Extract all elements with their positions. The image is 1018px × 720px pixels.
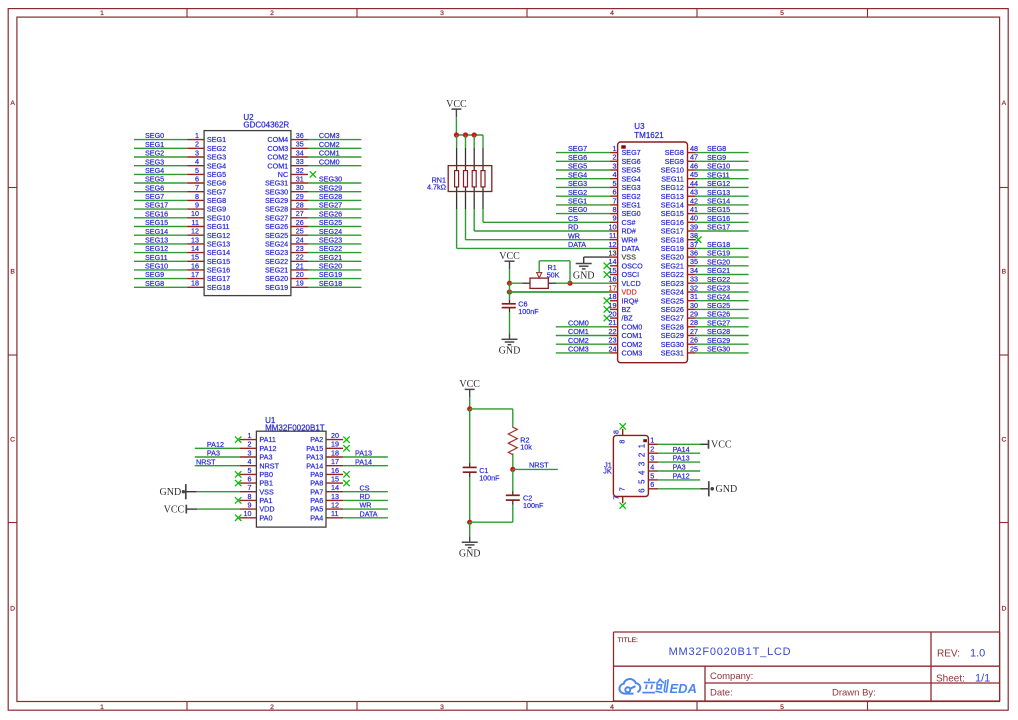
svg-text:15: 15: [609, 266, 617, 275]
svg-text:CS: CS: [568, 214, 578, 223]
svg-text:SEG18: SEG18: [707, 240, 730, 249]
svg-text:SEG2: SEG2: [568, 188, 587, 197]
svg-text:PA6: PA6: [310, 496, 323, 505]
svg-text:23: 23: [609, 336, 617, 345]
svg-text:13: 13: [191, 235, 199, 244]
svg-text:VDD: VDD: [259, 505, 274, 514]
svg-text:COM2: COM2: [568, 336, 589, 345]
svg-text:SEG17: SEG17: [207, 274, 230, 283]
svg-text:7: 7: [195, 183, 199, 192]
svg-text:VCC: VCC: [446, 99, 467, 110]
svg-text:2: 2: [195, 140, 199, 149]
svg-text:SEG17: SEG17: [145, 201, 168, 210]
svg-text:SEG4: SEG4: [622, 174, 641, 183]
svg-text:SEG14: SEG14: [707, 197, 730, 206]
svg-text:SEG0: SEG0: [145, 131, 164, 140]
svg-text:29: 29: [690, 310, 698, 319]
svg-text:COM1: COM1: [568, 327, 589, 336]
svg-text:6: 6: [613, 188, 617, 197]
svg-text:SEG15: SEG15: [661, 209, 684, 218]
svg-text:44: 44: [690, 179, 698, 188]
svg-text:13: 13: [331, 492, 339, 501]
svg-text:SEG8: SEG8: [707, 144, 726, 153]
svg-text:SEG22: SEG22: [661, 270, 684, 279]
svg-text:SEG11: SEG11: [207, 222, 230, 231]
svg-text:SEG31: SEG31: [265, 179, 288, 188]
svg-text:3: 3: [613, 161, 617, 170]
svg-text:OSCI: OSCI: [622, 270, 640, 279]
svg-text:5: 5: [780, 10, 784, 17]
svg-text:COM0: COM0: [319, 157, 340, 166]
svg-text:SEG4: SEG4: [207, 161, 226, 170]
svg-text:PA1: PA1: [259, 496, 272, 505]
svg-text:VSS: VSS: [622, 253, 637, 262]
svg-text:PA11: PA11: [259, 435, 276, 444]
svg-text:2: 2: [613, 153, 617, 162]
svg-text:SEG23: SEG23: [265, 248, 288, 257]
svg-text:24: 24: [609, 344, 617, 353]
svg-text:SEG10: SEG10: [207, 213, 230, 222]
svg-text:5: 5: [650, 471, 654, 480]
svg-text:30: 30: [690, 301, 698, 310]
svg-text:SEG23: SEG23: [707, 284, 730, 293]
svg-text:19: 19: [296, 279, 304, 288]
svg-text:SEG15: SEG15: [707, 205, 730, 214]
svg-text:WR: WR: [360, 501, 372, 510]
svg-text:TITLE:: TITLE:: [618, 637, 639, 644]
svg-text:2: 2: [650, 445, 654, 454]
svg-text:SEG14: SEG14: [145, 227, 168, 236]
svg-text:JK: JK: [603, 467, 612, 476]
svg-text:5: 5: [613, 179, 617, 188]
svg-text:SEG12: SEG12: [207, 231, 230, 240]
svg-text:SEG22: SEG22: [265, 257, 288, 266]
svg-text:16: 16: [191, 261, 199, 270]
svg-text:1.0: 1.0: [970, 648, 985, 660]
svg-text:19: 19: [331, 440, 339, 449]
svg-text:COM3: COM3: [267, 144, 288, 153]
svg-text:MM32F0020B1T: MM32F0020B1T: [265, 423, 325, 432]
svg-text:1: 1: [637, 444, 646, 448]
svg-text:20: 20: [296, 270, 304, 279]
svg-text:14: 14: [331, 483, 339, 492]
svg-text:PA14: PA14: [673, 445, 690, 454]
svg-text:SEG10: SEG10: [707, 162, 730, 171]
svg-text:DATA: DATA: [568, 240, 586, 249]
svg-text:3: 3: [650, 454, 654, 463]
svg-text:B: B: [1002, 269, 1007, 276]
svg-text:13: 13: [609, 249, 617, 258]
svg-text:27: 27: [296, 209, 304, 218]
svg-text:RD: RD: [568, 223, 578, 232]
svg-text:SEG7: SEG7: [568, 144, 587, 153]
svg-text:SEG19: SEG19: [707, 249, 730, 258]
svg-text:45: 45: [690, 170, 698, 179]
svg-text:100nF: 100nF: [479, 473, 500, 482]
svg-text:26: 26: [296, 218, 304, 227]
svg-text:PA0: PA0: [259, 513, 272, 522]
svg-text:4.7kΩ: 4.7kΩ: [427, 183, 447, 192]
svg-text:D: D: [1001, 606, 1006, 613]
svg-text:4: 4: [248, 457, 252, 466]
svg-text:SEG3: SEG3: [622, 183, 641, 192]
svg-text:1: 1: [613, 144, 617, 153]
svg-text:SEG13: SEG13: [707, 188, 730, 197]
svg-text:CS: CS: [360, 483, 370, 492]
svg-text:SEG22: SEG22: [319, 244, 342, 253]
svg-text:20: 20: [331, 431, 339, 440]
svg-text:21: 21: [296, 261, 304, 270]
svg-text:SEG19: SEG19: [265, 283, 288, 292]
svg-text:SEG21: SEG21: [319, 253, 342, 262]
svg-text:SEG1: SEG1: [622, 201, 641, 210]
svg-text:SEG23: SEG23: [661, 279, 684, 288]
svg-text:100nF: 100nF: [518, 307, 539, 316]
svg-text:24: 24: [296, 235, 304, 244]
svg-text:COM0: COM0: [568, 318, 589, 327]
svg-text:PB0: PB0: [259, 470, 273, 479]
svg-text:5: 5: [780, 704, 784, 711]
svg-text:10k: 10k: [520, 443, 532, 452]
svg-text:12: 12: [609, 240, 617, 249]
svg-text:46: 46: [690, 161, 698, 170]
svg-text:GND: GND: [160, 487, 182, 498]
svg-text:6: 6: [637, 488, 646, 492]
svg-text:PA4: PA4: [310, 513, 323, 522]
svg-text:SEG18: SEG18: [661, 235, 684, 244]
svg-text:COM3: COM3: [622, 349, 643, 358]
svg-text:SEG27: SEG27: [707, 318, 730, 327]
svg-text:6: 6: [248, 474, 252, 483]
svg-text:6: 6: [195, 174, 199, 183]
svg-text:RD#: RD#: [622, 227, 636, 236]
svg-text:SEG13: SEG13: [207, 240, 230, 249]
svg-text:11: 11: [609, 231, 616, 240]
svg-text:3: 3: [195, 148, 199, 157]
svg-text:37: 37: [690, 240, 698, 249]
svg-text:18: 18: [191, 279, 199, 288]
svg-text:19: 19: [609, 301, 617, 310]
svg-text:SEG25: SEG25: [707, 301, 730, 310]
svg-text:17: 17: [191, 270, 199, 279]
svg-text:SEG17: SEG17: [661, 227, 684, 236]
svg-text:RD: RD: [360, 492, 370, 501]
svg-text:4: 4: [610, 704, 614, 711]
svg-text:SEG21: SEG21: [661, 261, 684, 270]
svg-text:GND: GND: [499, 346, 521, 357]
svg-text:34: 34: [296, 148, 304, 157]
svg-text:REV:: REV:: [937, 649, 960, 660]
svg-text:SEG9: SEG9: [665, 157, 684, 166]
svg-text:8: 8: [248, 492, 252, 501]
svg-text:2: 2: [270, 704, 274, 711]
svg-text:COM1: COM1: [622, 331, 643, 340]
svg-text:SEG28: SEG28: [707, 327, 730, 336]
svg-text:SEG3: SEG3: [145, 157, 164, 166]
svg-text:COM1: COM1: [319, 149, 340, 158]
svg-text:50K: 50K: [547, 270, 560, 279]
svg-text:SEG12: SEG12: [661, 183, 684, 192]
svg-text:PA3: PA3: [259, 453, 272, 462]
svg-text:SEG0: SEG0: [622, 209, 641, 218]
svg-text:SEG7: SEG7: [145, 192, 164, 201]
svg-text:5: 5: [637, 479, 646, 484]
svg-text:SEG15: SEG15: [145, 218, 168, 227]
svg-text:7: 7: [611, 496, 620, 500]
svg-text:11: 11: [331, 509, 338, 518]
svg-text:COM3: COM3: [568, 345, 589, 354]
svg-text:PA9: PA9: [310, 470, 323, 479]
svg-text:26: 26: [690, 336, 698, 345]
svg-text:3: 3: [248, 448, 252, 457]
svg-text:SEG11: SEG11: [661, 174, 684, 183]
svg-text:1: 1: [650, 436, 654, 445]
svg-text:9: 9: [248, 501, 252, 510]
svg-text:28: 28: [690, 318, 698, 327]
svg-text:SEG2: SEG2: [207, 144, 226, 153]
svg-text:PA12: PA12: [207, 440, 224, 449]
svg-text:SEG9: SEG9: [207, 205, 226, 214]
svg-text:2: 2: [637, 453, 646, 457]
svg-text:43: 43: [690, 188, 698, 197]
svg-text:SEG14: SEG14: [661, 201, 684, 210]
svg-text:SEG24: SEG24: [319, 227, 342, 236]
svg-text:48: 48: [690, 144, 698, 153]
svg-text:SEG18: SEG18: [319, 279, 342, 288]
svg-text:SEG26: SEG26: [265, 222, 288, 231]
svg-text:NRST: NRST: [196, 457, 216, 466]
svg-text:U3: U3: [634, 122, 645, 131]
svg-text:9: 9: [613, 214, 617, 223]
svg-text:SEG7: SEG7: [207, 187, 226, 196]
svg-text:SEG14: SEG14: [207, 248, 230, 257]
svg-text:BZ: BZ: [622, 305, 632, 314]
svg-text:PA13: PA13: [673, 454, 690, 463]
svg-text:Sheet:: Sheet:: [936, 673, 965, 684]
svg-text:7: 7: [613, 196, 617, 205]
svg-text:VCC: VCC: [164, 505, 185, 516]
svg-text:SEG11: SEG11: [145, 253, 168, 262]
svg-text:42: 42: [690, 196, 698, 205]
svg-text:A: A: [1002, 100, 1007, 107]
svg-text:COM2: COM2: [319, 140, 340, 149]
svg-text:SEG29: SEG29: [265, 196, 288, 205]
svg-text:25: 25: [690, 344, 698, 353]
svg-text:SEG2: SEG2: [145, 149, 164, 158]
svg-text:SEG11: SEG11: [707, 170, 730, 179]
svg-text:SEG16: SEG16: [661, 218, 684, 227]
svg-text:10: 10: [191, 209, 199, 218]
svg-text:SEG28: SEG28: [265, 205, 288, 214]
svg-text:SEG13: SEG13: [145, 236, 168, 245]
svg-text:MM32F0020B1T_LCD: MM32F0020B1T_LCD: [669, 646, 792, 658]
svg-text:WR#: WR#: [622, 235, 638, 244]
svg-text:27: 27: [690, 327, 698, 336]
svg-text:SEG18: SEG18: [207, 283, 230, 292]
svg-text:OSCO: OSCO: [622, 261, 644, 270]
svg-text:21: 21: [609, 318, 617, 327]
svg-text:10: 10: [244, 509, 252, 518]
svg-text:SEG27: SEG27: [319, 201, 342, 210]
svg-text:IRQ#: IRQ#: [622, 296, 639, 305]
svg-text:16: 16: [609, 275, 617, 284]
svg-text:DATA: DATA: [622, 244, 640, 253]
svg-text:SEG1: SEG1: [207, 135, 226, 144]
svg-text:PA12: PA12: [259, 444, 276, 453]
svg-text:SEG24: SEG24: [661, 288, 684, 297]
svg-text:25: 25: [296, 227, 304, 236]
svg-text:SEG3: SEG3: [568, 179, 587, 188]
svg-text:SEG26: SEG26: [319, 209, 342, 218]
svg-text:SEG20: SEG20: [265, 274, 288, 283]
svg-text:PA15: PA15: [306, 444, 323, 453]
svg-text:6: 6: [650, 480, 654, 489]
svg-text:SEG28: SEG28: [319, 192, 342, 201]
svg-text:31: 31: [690, 292, 698, 301]
svg-text:PA3: PA3: [207, 449, 220, 458]
svg-text:SEG29: SEG29: [319, 183, 342, 192]
svg-text:SEG9: SEG9: [145, 270, 164, 279]
svg-text:SEG15: SEG15: [207, 257, 230, 266]
svg-text:40: 40: [690, 214, 698, 223]
svg-text:12: 12: [191, 227, 199, 236]
svg-text:SEG13: SEG13: [661, 192, 684, 201]
svg-text:12: 12: [331, 501, 339, 510]
svg-text:8: 8: [195, 192, 199, 201]
svg-text:CS#: CS#: [622, 218, 636, 227]
svg-text:15: 15: [331, 474, 339, 483]
svg-text:7: 7: [248, 483, 252, 492]
svg-text:PA14: PA14: [306, 461, 323, 470]
svg-text:32: 32: [690, 283, 698, 292]
svg-text:4: 4: [195, 157, 199, 166]
svg-text:SEG25: SEG25: [661, 296, 684, 305]
svg-text:VCC: VCC: [499, 251, 520, 262]
svg-text:Drawn By:: Drawn By:: [832, 688, 876, 699]
svg-text:SEG5: SEG5: [622, 166, 641, 175]
svg-text:/BZ: /BZ: [622, 314, 634, 323]
svg-text:8: 8: [618, 440, 627, 444]
svg-text:SEG29: SEG29: [707, 336, 730, 345]
svg-text:SEG24: SEG24: [707, 292, 730, 301]
svg-text:29: 29: [296, 192, 304, 201]
svg-text:GND: GND: [459, 548, 481, 559]
svg-text:28: 28: [296, 201, 304, 210]
svg-text:COM0: COM0: [622, 322, 643, 331]
svg-text:8: 8: [611, 430, 620, 434]
svg-text:17: 17: [609, 283, 617, 292]
svg-text:VLCD: VLCD: [622, 279, 641, 288]
svg-text:SEG23: SEG23: [319, 236, 342, 245]
svg-text:WR: WR: [568, 231, 580, 240]
svg-text:2: 2: [248, 440, 252, 449]
svg-text:8: 8: [613, 205, 617, 214]
svg-text:SEG16: SEG16: [145, 209, 168, 218]
svg-text:35: 35: [296, 140, 304, 149]
svg-text:36: 36: [690, 249, 698, 258]
svg-text:TM1621: TM1621: [634, 131, 664, 140]
svg-text:A: A: [10, 100, 15, 107]
svg-text:SEG20: SEG20: [707, 257, 730, 266]
svg-text:SEG8: SEG8: [145, 279, 164, 288]
svg-text:COM3: COM3: [319, 131, 340, 140]
svg-text:SEG6: SEG6: [145, 183, 164, 192]
svg-text:17: 17: [331, 457, 339, 466]
svg-text:SEG16: SEG16: [707, 214, 730, 223]
svg-text:SEG25: SEG25: [265, 231, 288, 240]
svg-text:EDA: EDA: [670, 681, 697, 696]
svg-text:SEG20: SEG20: [661, 253, 684, 262]
svg-text:35: 35: [690, 257, 698, 266]
svg-text:SEG12: SEG12: [707, 179, 730, 188]
svg-text:SEG8: SEG8: [207, 196, 226, 205]
svg-text:SEG27: SEG27: [661, 314, 684, 323]
svg-text:33: 33: [690, 275, 698, 284]
svg-text:SEG30: SEG30: [319, 175, 342, 184]
svg-text:GDC04362R: GDC04362R: [243, 121, 289, 130]
svg-text:34: 34: [690, 266, 698, 275]
svg-text:1: 1: [248, 431, 252, 440]
svg-text:SEG6: SEG6: [207, 179, 226, 188]
svg-text:20: 20: [609, 310, 617, 319]
svg-text:1: 1: [195, 131, 199, 140]
svg-text:SEG28: SEG28: [661, 322, 684, 331]
svg-text:SEG10: SEG10: [661, 166, 684, 175]
svg-text:B: B: [10, 269, 15, 276]
svg-text:10: 10: [609, 222, 617, 231]
svg-text:PA2: PA2: [310, 435, 323, 444]
svg-text:NRST: NRST: [529, 460, 549, 469]
svg-text:SEG21: SEG21: [707, 266, 730, 275]
svg-text:1: 1: [100, 704, 104, 711]
svg-text:SEG29: SEG29: [661, 331, 684, 340]
svg-text:9: 9: [195, 201, 199, 210]
svg-text:SEG30: SEG30: [707, 345, 730, 354]
svg-text:33: 33: [296, 157, 304, 166]
svg-text:C: C: [10, 437, 15, 444]
svg-text:COM2: COM2: [267, 153, 288, 162]
svg-text:PA7: PA7: [310, 487, 323, 496]
svg-text:47: 47: [690, 153, 698, 162]
svg-text:SEG24: SEG24: [265, 240, 288, 249]
svg-text:SEG5: SEG5: [145, 175, 164, 184]
svg-text:SEG6: SEG6: [622, 157, 641, 166]
svg-text:2: 2: [270, 10, 274, 17]
svg-text:VSS: VSS: [259, 487, 274, 496]
svg-text:SEG4: SEG4: [568, 170, 587, 179]
svg-text:PA12: PA12: [673, 472, 690, 481]
svg-text:SEG31: SEG31: [661, 349, 684, 358]
svg-text:7: 7: [618, 487, 627, 491]
svg-text:18: 18: [331, 448, 339, 457]
svg-text:Date:: Date:: [710, 688, 733, 699]
svg-text:31: 31: [296, 174, 304, 183]
svg-text:SEG12: SEG12: [145, 244, 168, 253]
svg-text:SEG8: SEG8: [665, 148, 684, 157]
svg-text:PA13: PA13: [355, 449, 372, 458]
svg-text:SEG27: SEG27: [265, 213, 288, 222]
svg-text:SEG3: SEG3: [207, 153, 226, 162]
svg-text:23: 23: [296, 244, 304, 253]
svg-text:PA3: PA3: [673, 463, 686, 472]
svg-text:SEG30: SEG30: [661, 340, 684, 349]
svg-text:COM1: COM1: [267, 161, 288, 170]
svg-text:3: 3: [637, 462, 646, 466]
svg-text:39: 39: [690, 222, 698, 231]
svg-text:VCC: VCC: [711, 440, 732, 451]
svg-text:100nF: 100nF: [523, 501, 544, 510]
svg-text:PA14: PA14: [355, 457, 372, 466]
